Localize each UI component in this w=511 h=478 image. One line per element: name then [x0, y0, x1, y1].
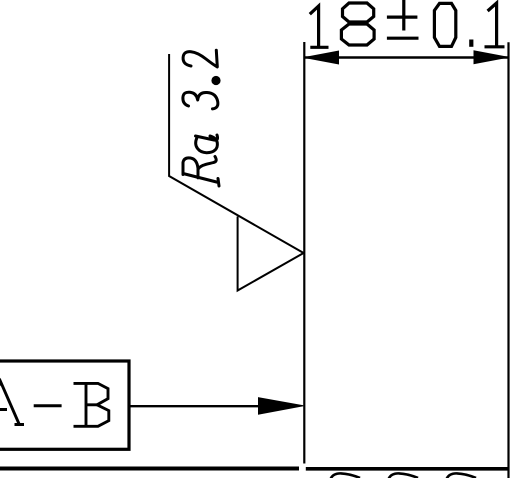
dimension text digit 1 last — [485, 3, 505, 47]
dimension text digit 0 — [434, 3, 455, 46]
dimension line — [305, 56, 508, 58]
roughness text Ra 3.2 — [183, 50, 219, 186]
datum letter A — [0, 382, 24, 425]
leader arrowhead — [259, 398, 304, 414]
surface roughness symbol — [169, 54, 304, 291]
dimension arrowhead right — [474, 51, 508, 64]
dimension text plus-minus — [387, 0, 419, 38]
datum box — [0, 361, 129, 449]
dimension text digit 1 — [310, 6, 329, 47]
bottom edge left thick — [0, 467, 299, 471]
bottom edge right thick — [306, 467, 508, 471]
dimension text digit 8 — [341, 3, 374, 45]
section curve 1 — [331, 473, 361, 478]
leader arrow line — [131, 405, 263, 407]
datum dash — [34, 404, 62, 407]
section curve 2 — [389, 473, 419, 478]
dimension text period — [469, 40, 473, 47]
part edge right vertical — [507, 42, 509, 478]
datum letter B — [74, 383, 109, 426]
section curve 3 — [447, 473, 477, 478]
part edge left vertical — [303, 42, 305, 464]
dimension arrowhead left — [305, 51, 339, 64]
